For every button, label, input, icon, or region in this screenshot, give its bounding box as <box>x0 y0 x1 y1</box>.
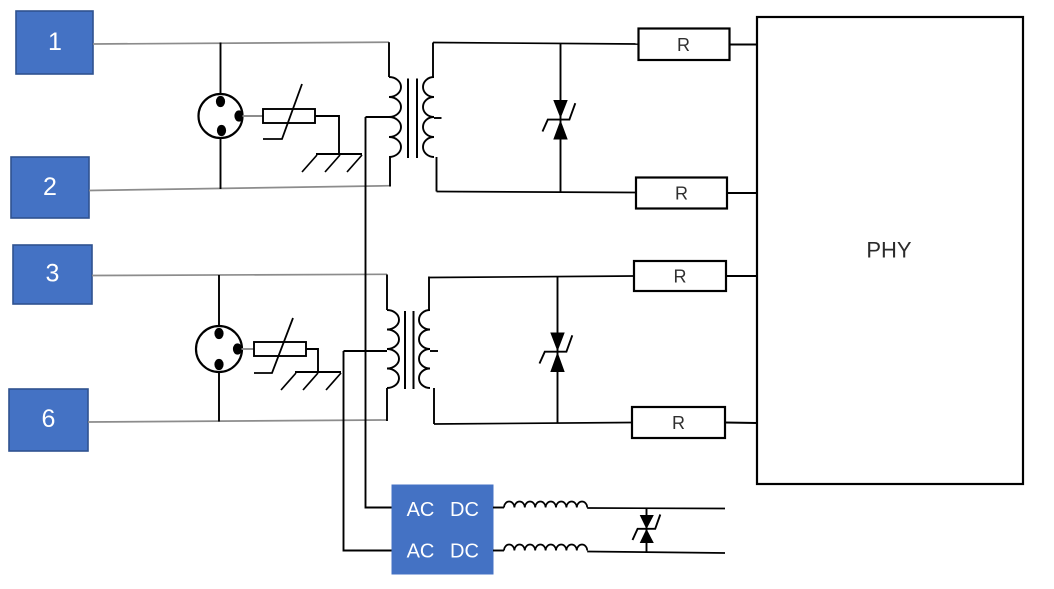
wire box6 to transformer T2 primary bottom <box>88 420 387 422</box>
varistor RV2 <box>254 318 306 373</box>
inductor L2 <box>504 545 587 551</box>
wire GDT1 to varistor RV1 <box>243 115 264 117</box>
transformer T2 secondary bottom lead <box>433 388 435 424</box>
TVS diode D3 <box>633 515 661 543</box>
wire inductor L1 to node end <box>587 507 725 510</box>
wire T1 secondary bottom to R2 <box>437 192 637 193</box>
svg-text:2: 2 <box>43 173 57 201</box>
transformer T2 secondary tap stub <box>430 350 438 352</box>
wire R1 to PHY <box>730 44 758 46</box>
transformer T2 secondary top lead <box>428 277 430 311</box>
TVS diode D2 vertical wire <box>557 277 559 424</box>
transformer T2 primary top lead <box>386 275 388 311</box>
pin box 2 <box>11 157 89 218</box>
svg-text:R: R <box>674 267 687 287</box>
transformer T1 centre tap <box>366 116 390 118</box>
wire R4 to PHY <box>725 422 757 425</box>
inductor L1 <box>504 501 587 507</box>
transformer T1 secondary top lead <box>432 43 434 78</box>
wire T2 secondary top to R3 <box>429 276 634 278</box>
svg-text:PHY: PHY <box>866 238 912 263</box>
svg-text:AC: AC <box>407 541 435 563</box>
wire AC-DC output 2 to inductor L2 <box>493 550 504 552</box>
transformer T2 centre tap <box>344 350 388 352</box>
wire T2 centre tap to AC-DC input 2 <box>344 351 393 551</box>
wire R3 to PHY <box>726 275 757 277</box>
gas discharge tube GDT1 <box>199 94 244 138</box>
wire box2 to transformer T1 primary bottom <box>89 186 391 191</box>
pin box 6 <box>9 389 88 451</box>
transformer T2 core <box>405 311 414 389</box>
transformer T2 secondary winding <box>419 310 430 388</box>
gas discharge tube GDT2 <box>196 326 242 372</box>
wire box1 to transformer T1 primary top <box>93 42 389 44</box>
svg-text:3: 3 <box>46 260 60 288</box>
transformer T1 primary winding <box>389 77 401 157</box>
GDT2 bottom lead <box>218 372 220 422</box>
varistor RV1 <box>263 84 315 139</box>
GDT1 bottom lead <box>220 138 222 189</box>
transformer T2 primary bottom lead <box>386 388 388 421</box>
wire T1 centre tap to AC-DC input 1 <box>366 117 393 508</box>
transformer T1 secondary tap stub <box>434 117 442 119</box>
svg-text:6: 6 <box>42 405 56 433</box>
TVS diode D1 <box>543 101 576 140</box>
transformer T1 secondary winding <box>423 77 434 157</box>
resistor R3 <box>634 261 726 291</box>
transformer T2 primary winding <box>387 310 399 388</box>
svg-text:R: R <box>672 413 685 433</box>
ground GND2 <box>281 372 341 390</box>
wire box3 to transformer T2 primary top <box>92 274 387 275</box>
transformer T1 primary bottom lead <box>389 157 391 187</box>
svg-text:R: R <box>675 184 688 204</box>
wire AC-DC output 1 to inductor L1 <box>493 507 504 509</box>
wire RV1 to ground GND1 <box>315 116 339 154</box>
ground GND1 <box>302 154 362 172</box>
svg-text:DC: DC <box>450 499 479 521</box>
wire inductor L2 to node end <box>587 552 725 554</box>
wire T1 secondary top to R1 <box>433 43 639 45</box>
pin box 1 <box>16 11 93 74</box>
TVS diode D1 vertical wire <box>560 43 562 192</box>
svg-text:1: 1 <box>48 28 62 56</box>
transformer T1 primary top lead <box>388 42 390 77</box>
TVS diode D2 <box>540 333 573 372</box>
PHY chip U1 <box>757 17 1023 484</box>
transformer T1 secondary bottom lead <box>436 157 438 192</box>
gas discharge tube GDT2 top lead <box>218 275 220 327</box>
svg-text:R: R <box>677 35 690 55</box>
resistor R2 <box>636 178 727 209</box>
wire GDT2 to varistor RV2 <box>242 348 255 350</box>
wire RV2 to ground GND2 <box>306 349 318 372</box>
resistor R1 <box>639 29 730 61</box>
pin box 3 <box>13 245 92 304</box>
gas discharge tube GDT1 top lead <box>220 43 222 96</box>
wire T2 secondary bottom to R4 <box>434 423 632 425</box>
resistor R4 <box>632 407 725 438</box>
AC-DC converter U2 <box>392 485 493 574</box>
svg-text:AC: AC <box>407 499 435 521</box>
TVS diode D3 vertical wire <box>646 508 648 553</box>
wire R2 to PHY <box>727 192 757 194</box>
transformer T1 core <box>408 79 417 159</box>
svg-text:DC: DC <box>450 541 479 563</box>
